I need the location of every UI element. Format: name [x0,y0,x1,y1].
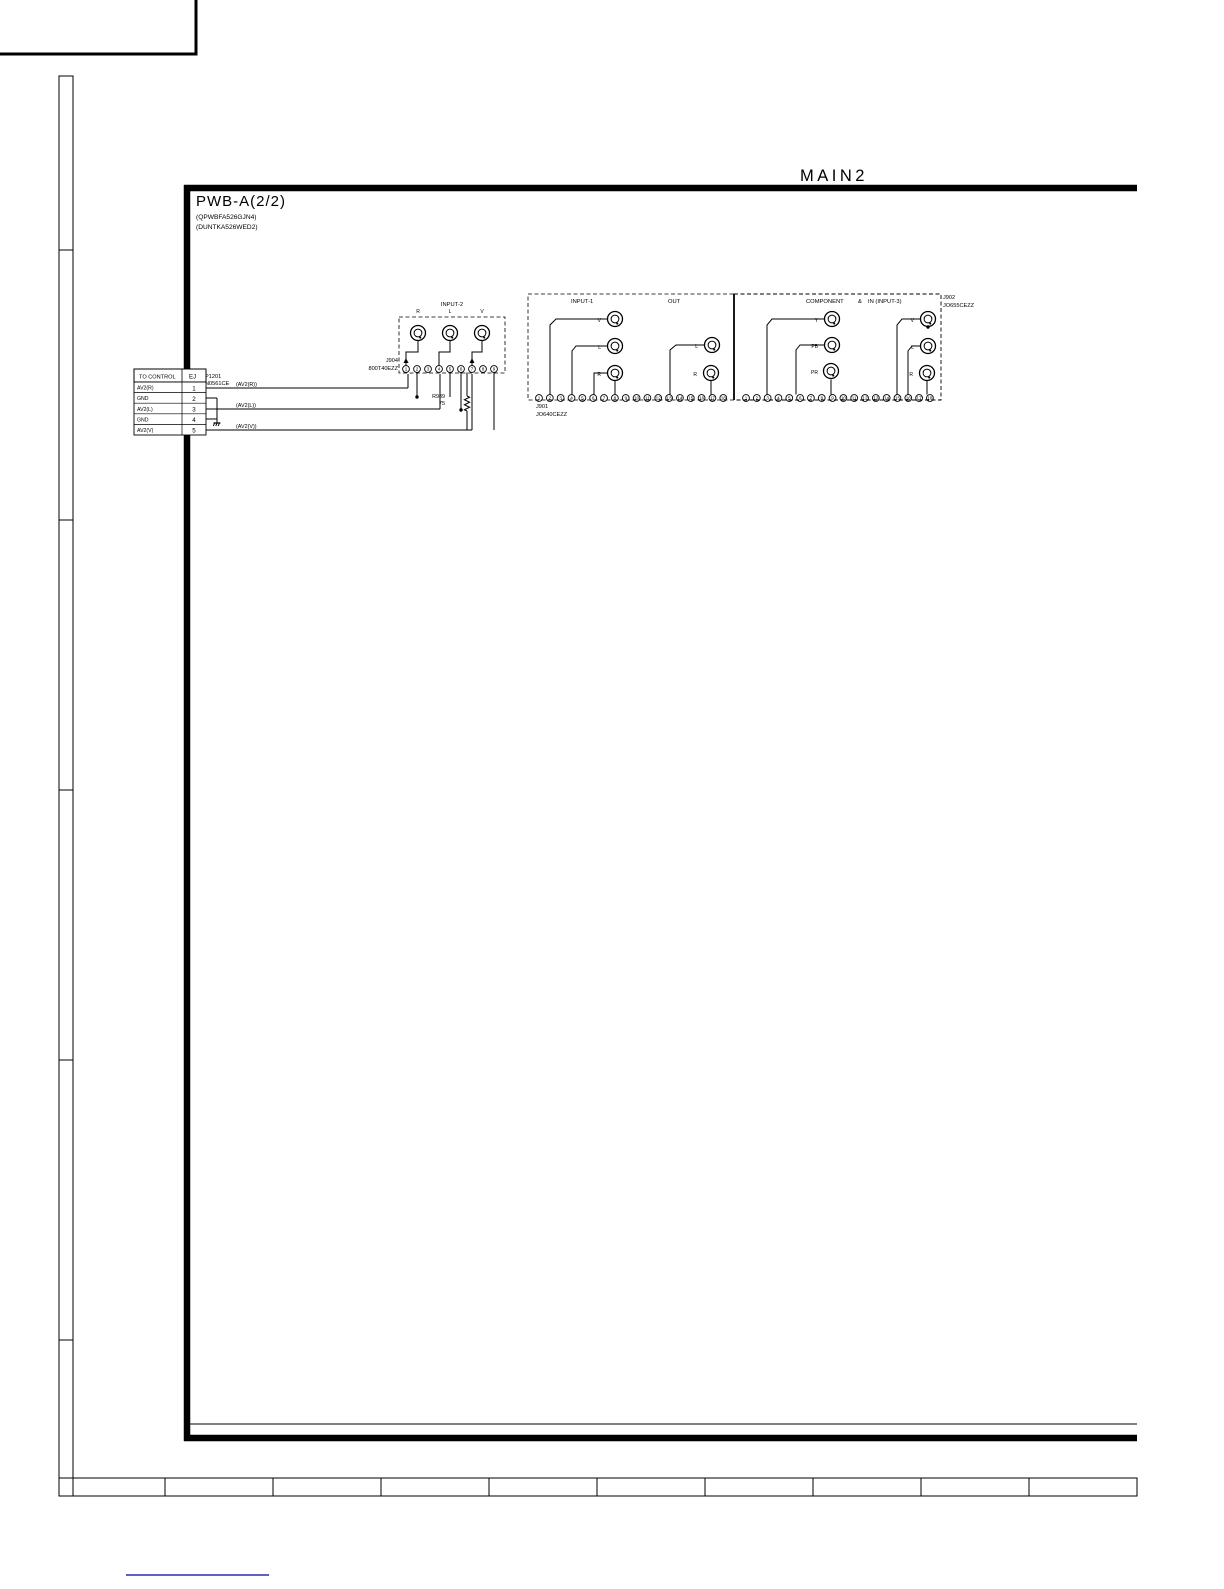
left ruler tick 5 [59,1339,73,1341]
svg-text:AV2(R): AV2(R) [137,386,154,392]
svg-text:17: 17 [710,396,716,401]
svg-text:R: R [909,372,913,378]
svg-text:2: 2 [192,396,196,403]
svg-text:P1201: P1201 [205,374,221,380]
svg-text:75: 75 [439,401,445,407]
wire jack PB to pin 6 [796,345,825,395]
svg-text:15: 15 [688,396,694,401]
svg-text:1: 1 [745,396,748,401]
svg-text:PWB-A(2/2): PWB-A(2/2) [196,193,286,210]
svg-text:&: & [858,299,862,305]
wire jack L INPUT-1 to pin 4 [572,346,608,395]
wire jack L INPUT-3 to pin 15 [908,346,921,395]
svg-text:15: 15 [895,396,901,401]
svg-text:11: 11 [645,396,650,401]
wire AV2(R) from EJ pin 1 [206,387,408,389]
svg-text:7: 7 [471,367,474,372]
svg-text:3: 3 [559,396,562,401]
svg-text:JO655CEZZ: JO655CEZZ [943,303,975,309]
bottom ruler divider 3 [272,1478,274,1496]
svg-text:R: R [693,372,697,378]
wire pin 9 down [493,373,495,431]
svg-text:GND: GND [137,417,149,423]
svg-text:2: 2 [756,396,759,401]
J902 pin row 1-18 [743,395,750,402]
blue underline mark [126,1574,269,1576]
wire jack V INPUT-3 to pin 14 [897,319,921,395]
svg-text:1: 1 [538,396,541,401]
svg-text:J902: J902 [943,295,955,301]
svg-text:10: 10 [841,396,847,401]
left ruler bar [59,76,73,1496]
svg-text:AV2(V): AV2(V) [137,428,154,434]
svg-text:14: 14 [884,396,890,401]
svg-text:AV2(L): AV2(L) [137,407,153,413]
bottom ruler divider 2 [164,1478,166,1496]
svg-text:13: 13 [873,396,879,401]
connector J901 dashed outline INPUT-1/OUT [528,294,734,400]
svg-text:12: 12 [656,396,662,401]
svg-text:2: 2 [416,367,419,372]
bottom ruler divider 1 [72,1478,74,1496]
svg-text:2: 2 [549,396,552,401]
svg-text:9: 9 [493,367,496,372]
svg-text:EJ: EJ [189,375,196,381]
svg-text:4: 4 [438,367,441,372]
svg-text:16: 16 [699,396,705,401]
bottom ruler divider 6 [596,1478,598,1496]
connector J902 dashed outline COMPONENT/INPUT-3 [734,294,941,400]
wire jack L OUT to pin 13 [670,345,705,395]
svg-text:8: 8 [820,396,823,401]
wire pin 2 down [416,373,418,398]
svg-text:INPUT-2: INPUT-2 [441,302,463,308]
bottom ruler divider 7 [704,1478,706,1496]
left ruler tick 2 [59,519,73,521]
wire AV2(L) from EJ pin 3 [206,408,440,410]
wire GND EJ pin 2 [206,397,217,399]
svg-text:L: L [449,309,452,315]
wire jack Y COMPONENT to pin 2 [767,319,825,395]
wire pin 6 down [460,373,462,411]
svg-text:(AV2(R)): (AV2(R)) [236,382,257,388]
main schematic border [184,185,1137,192]
wire AV2(V) from EJ pin 5 [206,429,472,431]
title block box top-left [0,0,196,54]
left ruler tick 1 [59,249,73,251]
svg-text:12: 12 [862,396,868,401]
bottom ruler divider 5 [488,1478,490,1496]
svg-text:5: 5 [192,428,196,435]
svg-text:7: 7 [810,396,813,401]
svg-text:18: 18 [721,396,727,401]
svg-text:18: 18 [927,396,933,401]
left ruler tick 3 [59,789,73,791]
inner bottom thin line [190,1423,1137,1425]
svg-text:1: 1 [192,385,196,392]
svg-text:13: 13 [667,396,673,401]
svg-text:6: 6 [460,367,463,372]
svg-text:1: 1 [405,367,408,372]
svg-text:16: 16 [906,396,912,401]
svg-text:N0561CE: N0561CE [205,381,230,387]
svg-text:3: 3 [427,367,430,372]
svg-text:6: 6 [592,396,595,401]
bottom ruler divider 9 [920,1478,922,1496]
svg-text:4: 4 [192,417,196,424]
bottom ruler divider 4 [380,1478,382,1496]
connector table TO CONTROL / EJ [134,369,206,382]
svg-text:J904: J904 [386,358,398,364]
svg-text:(DUNTKA526WED2): (DUNTKA526WED2) [196,224,258,231]
svg-text:IN (INPUT-3): IN (INPUT-3) [868,299,902,305]
svg-text:11: 11 [852,396,857,401]
svg-text:COMPONENT: COMPONENT [806,299,844,305]
svg-text:10: 10 [634,396,640,401]
svg-text:3: 3 [766,396,769,401]
bottom ruler divider 8 [812,1478,814,1496]
wire pin 5 down [449,373,451,398]
svg-text:(QPWBFA526GJN4): (QPWBFA526GJN4) [196,214,256,221]
svg-text:800T40EZZ: 800T40EZZ [368,366,398,372]
svg-text:INPUT-1: INPUT-1 [571,299,593,305]
svg-text:(AV2(V)): (AV2(V)) [236,424,257,430]
bottom ruler band [59,1478,1137,1496]
ground for EJ pin 2 [216,420,218,423]
svg-text:8: 8 [482,367,485,372]
wire jack R INPUT-3 stub [926,381,928,395]
svg-text:R989: R989 [432,394,445,400]
svg-text:8: 8 [614,396,617,401]
svg-text:JO640CEZZ: JO640CEZZ [536,412,568,418]
svg-text:17: 17 [917,396,923,401]
J901 pin row 1-18 [536,395,543,402]
svg-text:J901: J901 [536,404,548,410]
wire jack R to pin 1 [406,341,418,366]
wire jack PR to pin 9 [830,380,832,395]
svg-text:5: 5 [581,396,584,401]
svg-text:GND: GND [137,396,149,402]
svg-text:OUT: OUT [668,299,681,305]
wire jack V to pin 7 [472,341,482,366]
wire jack V INPUT-1 to pin 2 [550,319,608,395]
svg-text:4: 4 [570,396,573,401]
wire jack R OUT to pin 16 [710,381,712,395]
svg-text:9: 9 [831,396,834,401]
svg-text:6: 6 [799,396,802,401]
svg-text:R: R [416,309,420,315]
left ruler tick 4 [59,1059,73,1061]
svg-text:(AV2(L)): (AV2(L)) [236,403,256,409]
wire jack L to pin 4 [439,341,450,366]
bottom ruler divider 10 [1028,1478,1030,1496]
svg-text:MAIN2: MAIN2 [800,167,868,185]
connector J904 dashed outline [399,317,505,373]
svg-text:5: 5 [788,396,791,401]
svg-text:7: 7 [603,396,606,401]
svg-text:9: 9 [624,396,627,401]
svg-text:PR: PR [811,370,818,376]
J904 pin row [403,366,410,373]
wire jack R INPUT-1 stub [614,381,616,395]
svg-text:5: 5 [449,367,452,372]
svg-text:14: 14 [677,396,683,401]
svg-text:3: 3 [192,406,196,413]
svg-text:4: 4 [777,396,780,401]
svg-text:TO CONTROL: TO CONTROL [139,375,176,381]
wire GND EJ pin 4 [206,418,217,420]
